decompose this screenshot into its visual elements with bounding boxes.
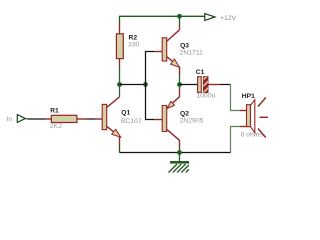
node B junction xyxy=(143,82,148,87)
svg-text:2K2: 2K2 xyxy=(50,123,62,130)
wire node D to C1 xyxy=(180,84,198,86)
svg-text:R1: R1 xyxy=(50,107,59,114)
transistor Q1 xyxy=(102,97,142,138)
node A junction xyxy=(117,82,122,87)
wire to HP1 top terminal xyxy=(231,85,247,111)
svg-text:Q2: Q2 xyxy=(180,110,189,117)
svg-text:+12V: +12V xyxy=(220,15,237,22)
wire top +12V rail xyxy=(120,15,205,17)
wire Q1 collector to node A xyxy=(119,85,121,97)
svg-text:HP1: HP1 xyxy=(242,93,255,100)
svg-text:1000u: 1000u xyxy=(197,92,216,99)
wire HP1 bottom terminal to bottom rail xyxy=(231,127,247,153)
wire R2 top lead xyxy=(119,16,121,34)
resistor R2 xyxy=(116,34,139,59)
svg-text:Q1: Q1 xyxy=(121,110,130,117)
transistor Q3 xyxy=(162,30,203,68)
transistor Q2 xyxy=(162,97,203,141)
ground xyxy=(169,153,190,173)
wire node B to Q2 base xyxy=(146,85,163,120)
resistor R1 xyxy=(50,107,77,130)
svg-text:2N1711: 2N1711 xyxy=(180,49,204,56)
svg-text:In: In xyxy=(7,116,13,123)
svg-text:2N2905: 2N2905 xyxy=(180,117,204,124)
node D junction xyxy=(177,82,182,87)
wire Q3 collector to rail xyxy=(179,16,181,30)
wire bottom rail xyxy=(120,152,231,154)
wire Q2 emitter to node D xyxy=(179,85,181,97)
svg-text:C1: C1 xyxy=(196,69,205,76)
wire Q1 emitter down xyxy=(119,137,121,153)
port In xyxy=(7,115,26,123)
wire C1 to right corner xyxy=(208,84,231,86)
wire Q2 collector to ground node xyxy=(179,140,181,152)
svg-text:BC107: BC107 xyxy=(121,118,142,125)
wire In to R1 xyxy=(25,118,51,120)
wire node A to node B xyxy=(120,84,146,86)
wire R1 to Q1 base xyxy=(77,118,102,120)
svg-text:R2: R2 xyxy=(129,35,138,42)
speaker HP1 xyxy=(241,93,269,138)
node E junction top xyxy=(177,14,182,19)
capacitor C1 xyxy=(196,69,216,100)
svg-text:8 ohms: 8 ohms xyxy=(241,132,264,139)
svg-text:330: 330 xyxy=(128,42,140,49)
node C ground junction xyxy=(177,150,182,155)
wire R2 bottom lead xyxy=(119,59,121,85)
wire node B to Q3 base xyxy=(146,52,163,85)
power +12V xyxy=(205,14,237,23)
wire Q3 emitter to node D xyxy=(179,67,181,85)
